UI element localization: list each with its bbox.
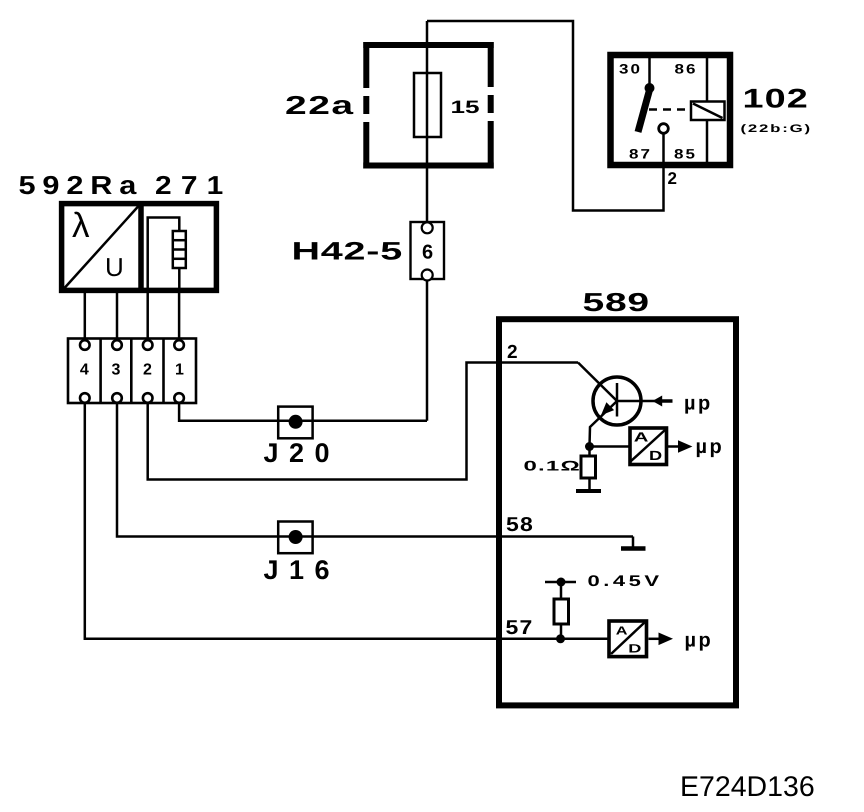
svg-text:592Ra: 592Ra — [19, 170, 144, 200]
svg-text:µp: µp — [684, 393, 713, 415]
svg-text:D: D — [628, 641, 641, 655]
svg-text:30: 30 — [619, 62, 642, 77]
svg-text:0.1Ω: 0.1Ω — [524, 459, 581, 474]
svg-text:J20: J20 — [264, 438, 341, 468]
svg-text:H42-5: H42-5 — [292, 236, 403, 265]
svg-text:86: 86 — [675, 62, 698, 77]
svg-text:271: 271 — [155, 170, 232, 200]
svg-text:A: A — [616, 624, 629, 638]
svg-text:6: 6 — [422, 242, 433, 264]
svg-text:λ: λ — [72, 206, 90, 245]
svg-text:3: 3 — [111, 362, 120, 379]
svg-text:2: 2 — [668, 169, 677, 188]
svg-text:D: D — [649, 448, 662, 463]
svg-text:µp: µp — [696, 436, 725, 458]
svg-text:15: 15 — [451, 97, 480, 117]
svg-text:2: 2 — [507, 342, 518, 363]
svg-text:57: 57 — [506, 617, 534, 639]
svg-text:4: 4 — [80, 362, 89, 379]
svg-text:J16: J16 — [264, 555, 341, 585]
svg-text:µp: µp — [685, 630, 714, 652]
svg-text:(22b:G): (22b:G) — [741, 122, 812, 134]
svg-text:U: U — [105, 252, 124, 282]
svg-text:589: 589 — [583, 287, 650, 317]
svg-text:102: 102 — [743, 84, 809, 114]
svg-text:0.45V: 0.45V — [588, 572, 663, 590]
svg-text:85: 85 — [674, 147, 697, 162]
svg-text:58: 58 — [506, 514, 534, 536]
svg-text:22a: 22a — [285, 90, 355, 120]
svg-text:1: 1 — [175, 362, 184, 379]
svg-text:A: A — [634, 429, 649, 444]
svg-text:87: 87 — [629, 147, 652, 162]
svg-text:E724D136: E724D136 — [680, 771, 815, 803]
svg-text:2: 2 — [143, 362, 152, 379]
